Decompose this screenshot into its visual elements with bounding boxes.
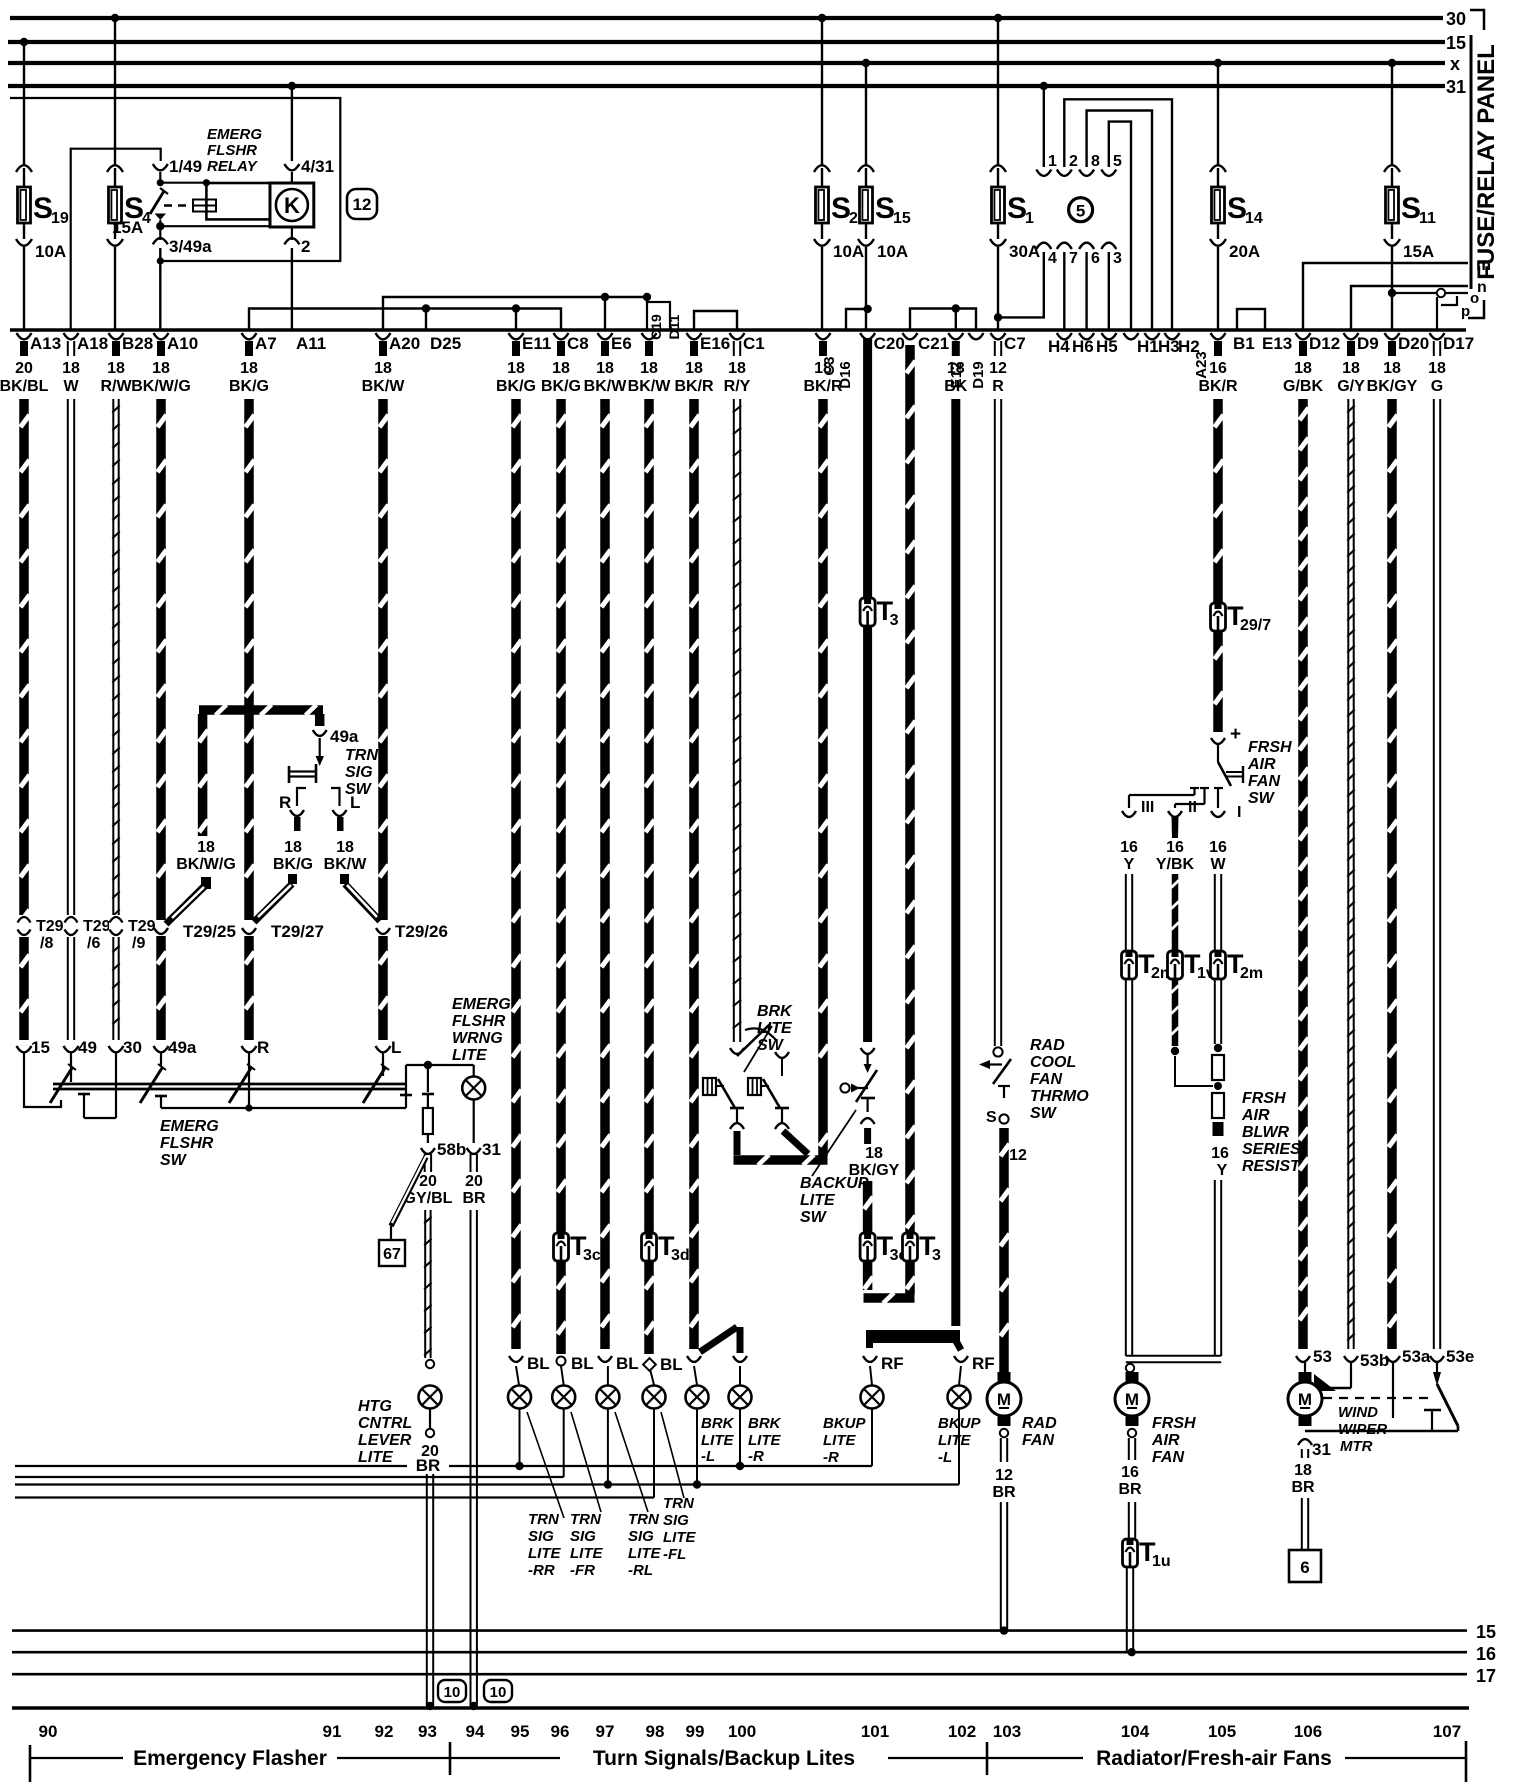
wire III 16 Y — [1126, 874, 1132, 951]
svg-text:3d: 3d — [671, 1247, 690, 1264]
svg-text:/9: /9 — [132, 935, 145, 952]
svg-text:94: 94 — [466, 1722, 485, 1741]
lamp trn sig lite -RR — [508, 1386, 531, 1409]
svg-text:49a: 49a — [330, 727, 359, 746]
callout 12 — [347, 189, 377, 219]
connector B28 at rail — [100, 333, 153, 395]
turn sig sw arrow — [316, 738, 325, 766]
svg-text:18: 18 — [1428, 360, 1446, 377]
annotation trn rr — [527, 1412, 564, 1518]
svg-text:E11: E11 — [522, 334, 551, 353]
relay5 terminal 2 — [1057, 99, 1172, 330]
label A23 vertical — [1193, 351, 1210, 379]
svg-text:BR: BR — [1118, 1481, 1142, 1498]
connector box C19 — [647, 302, 670, 340]
wire 12 to rad fan — [999, 1128, 1009, 1380]
svg-text:31: 31 — [1312, 1440, 1331, 1459]
label trn sig lite -FL — [663, 1495, 696, 1563]
svg-text:16: 16 — [1211, 1145, 1229, 1162]
svg-text:18: 18 — [507, 360, 525, 377]
svg-text:BK/W: BK/W — [362, 378, 406, 395]
bridge box B1-E13 — [1237, 309, 1265, 330]
label 16 W — [1209, 839, 1227, 873]
rad cool fan thrmo sw — [979, 1059, 1011, 1126]
svg-text:EMERG: EMERG — [160, 1118, 219, 1135]
label BRK LITE SW — [757, 1003, 793, 1054]
fuse S19 10A — [16, 165, 69, 330]
svg-text:T29/26: T29/26 — [395, 922, 448, 941]
wire E6 18 BK/W — [598, 399, 639, 1373]
section bar radiator fans — [987, 1741, 1466, 1782]
svg-text:BLWR: BLWR — [1242, 1124, 1290, 1141]
svg-text:10A: 10A — [833, 242, 864, 261]
svg-text:H1: H1 — [1137, 337, 1159, 356]
connector D9 at rail — [1337, 333, 1379, 395]
label rad fan — [1022, 1415, 1057, 1449]
svg-text:M: M — [997, 1390, 1011, 1409]
connector D17 at rail — [1428, 333, 1474, 395]
fuse/relay panel bracket — [1468, 10, 1500, 318]
connector 1218 at rail — [1198, 333, 1238, 395]
svg-text:T29/25: T29/25 — [183, 922, 236, 941]
svg-text:RELAY: RELAY — [207, 158, 259, 175]
wire frsh air fan feed — [1126, 1356, 1221, 1378]
labels B1 E13 — [1233, 334, 1292, 353]
annotation trn rl — [615, 1412, 648, 1512]
svg-text:RESIST: RESIST — [1242, 1158, 1301, 1175]
svg-text:67: 67 — [383, 1246, 401, 1263]
wire bus C — [15, 1483, 959, 1485]
svg-text:15A: 15A — [112, 218, 143, 237]
svg-text:96: 96 — [551, 1722, 570, 1741]
svg-text:31: 31 — [1446, 77, 1466, 97]
svg-text:3: 3 — [1113, 250, 1122, 267]
svg-text:BR: BR — [1291, 1479, 1315, 1496]
svg-text:BKUP: BKUP — [823, 1415, 866, 1432]
connector C1 at rail — [724, 333, 765, 395]
wire bus BR — [15, 1465, 872, 1467]
lamp bkup lite -R — [861, 1386, 884, 1409]
svg-text:BK/R: BK/R — [674, 378, 714, 395]
svg-text:49: 49 — [78, 1038, 97, 1057]
svg-text:BR: BR — [462, 1190, 486, 1207]
fuse S15 10A — [858, 165, 911, 330]
svg-text:1: 1 — [1025, 210, 1034, 227]
wire C8 lower — [556, 1261, 593, 1385]
svg-text:30A: 30A — [1009, 242, 1040, 261]
svg-text:D19: D19 — [970, 361, 987, 389]
brk sw T contact right — [775, 1108, 789, 1129]
callout 10 right — [484, 1680, 512, 1702]
relay5 terminal 3 — [1101, 243, 1122, 330]
junction S2-bus30 — [818, 14, 826, 165]
label D11 — [666, 314, 682, 339]
terminal III — [1122, 799, 1154, 817]
connector C8 at rail — [541, 333, 589, 395]
svg-text:BL: BL — [660, 1355, 683, 1374]
svg-text:LITE: LITE — [358, 1449, 394, 1466]
wire E16 18 BK/R — [687, 399, 701, 1362]
svg-text:TRN: TRN — [528, 1511, 560, 1528]
callout 10 left — [438, 1680, 466, 1702]
svg-text:30: 30 — [123, 1038, 142, 1057]
label C3 D16 vertical — [821, 356, 854, 388]
svg-text:18: 18 — [728, 360, 746, 377]
svg-text:15: 15 — [893, 210, 911, 227]
svg-text:18: 18 — [374, 360, 392, 377]
emerg sw pole L — [382, 1052, 384, 1076]
relay5 terminal 6 — [1079, 243, 1100, 330]
lamp trn sig lite -RL — [596, 1386, 619, 1409]
svg-text:C3: C3 — [821, 356, 838, 375]
svg-text:SIG: SIG — [528, 1528, 554, 1545]
lamp bkup lite -L — [948, 1386, 971, 1409]
relay5 terminal 7 — [1057, 243, 1078, 330]
svg-text:o: o — [1470, 290, 1479, 307]
svg-text:MTR: MTR — [1340, 1438, 1373, 1455]
brk sw T contact left — [730, 1108, 744, 1129]
wire 3/49a to rail A10 — [157, 248, 164, 330]
svg-text:102: 102 — [948, 1722, 976, 1741]
svg-text:18: 18 — [685, 360, 703, 377]
wire lamp FR down — [563, 1409, 565, 1477]
svg-text:TRN: TRN — [345, 747, 378, 764]
svg-text:WRNG: WRNG — [452, 1030, 503, 1047]
wire 31 br — [470, 1154, 478, 1710]
label 18 BK/W/G stub — [176, 839, 236, 873]
svg-text:92: 92 — [375, 1722, 394, 1741]
svg-text:S: S — [875, 192, 895, 225]
svg-text:18: 18 — [865, 1145, 883, 1162]
svg-text:BK/G: BK/G — [496, 378, 536, 395]
label frsh air fan sw — [1247, 739, 1292, 807]
label wind wiper mtr — [1338, 1404, 1387, 1455]
svg-text:15A: 15A — [1403, 242, 1434, 261]
svg-text:-FL: -FL — [663, 1546, 686, 1563]
relay terminal 3/49a — [153, 220, 212, 256]
emerg sw output line — [161, 1104, 406, 1111]
motor frsh air fan — [1115, 1372, 1149, 1426]
connector A18 at rail — [62, 333, 108, 395]
wire III lower — [1126, 979, 1132, 1356]
wire D9 18 G/Y — [1344, 399, 1389, 1370]
svg-text:A11: A11 — [296, 334, 326, 353]
connector A20 at rail — [362, 333, 421, 395]
svg-text:-RL: -RL — [628, 1562, 653, 1579]
svg-text:p: p — [1461, 303, 1470, 320]
svg-text:I: I — [1237, 804, 1241, 821]
svg-text:103: 103 — [993, 1722, 1021, 1741]
terminal II — [1168, 799, 1197, 817]
svg-text:BRK: BRK — [701, 1415, 735, 1432]
svg-text:FRSH: FRSH — [1248, 739, 1292, 756]
svg-text:TRN: TRN — [570, 1511, 602, 1528]
svg-text:T29/27: T29/27 — [271, 922, 324, 941]
wire rad fan ground — [992, 1429, 1016, 1635]
svg-text:-R: -R — [748, 1448, 764, 1465]
svg-text:C8: C8 — [567, 334, 589, 353]
svg-text:BL: BL — [571, 1354, 594, 1373]
relay armature S4a — [150, 188, 168, 214]
wire 53 to motor — [1304, 1362, 1306, 1377]
emerg sw pole 49a — [155, 1052, 167, 1108]
svg-text:93: 93 — [418, 1722, 437, 1741]
svg-text:BK/GY: BK/GY — [849, 1162, 900, 1179]
svg-text:97: 97 — [596, 1722, 615, 1741]
svg-text:A10: A10 — [167, 334, 198, 353]
wire A20 18 BK/W — [376, 399, 402, 1057]
label 18 BK/GY — [849, 1145, 900, 1179]
relay contact arrow — [155, 214, 167, 221]
svg-text:6: 6 — [1300, 1558, 1309, 1577]
emerg flshr sw blade 240 — [229, 1064, 255, 1103]
emerg sw 58b branch — [421, 1065, 466, 1159]
wire diag to T29/26 — [340, 874, 380, 921]
svg-text:18: 18 — [197, 839, 215, 856]
svg-text:1u: 1u — [1152, 1553, 1171, 1570]
connector T3 upper — [860, 596, 899, 629]
svg-text:E16: E16 — [700, 334, 730, 353]
svg-text:SW: SW — [160, 1152, 188, 1169]
svg-text:LEVER: LEVER — [358, 1432, 412, 1449]
label T29/27 — [271, 922, 324, 941]
svg-text:16: 16 — [1166, 839, 1184, 856]
svg-text:E12: E12 — [948, 362, 965, 389]
svg-text:LITE: LITE — [800, 1192, 836, 1209]
svg-text:LITE: LITE — [452, 1047, 488, 1064]
svg-text:AIR: AIR — [1247, 756, 1276, 773]
svg-text:SW: SW — [800, 1209, 828, 1226]
svg-text:FRSH: FRSH — [1242, 1090, 1286, 1107]
svg-text:+: + — [1230, 724, 1241, 745]
svg-text:1: 1 — [1048, 153, 1057, 170]
svg-text:12: 12 — [989, 360, 1007, 377]
terminal I — [1211, 804, 1241, 821]
terminal box 6 — [1289, 1550, 1321, 1582]
svg-text:5: 5 — [1076, 202, 1085, 221]
backup sw T contact — [861, 1098, 875, 1144]
connector C20 at rail — [860, 333, 905, 353]
svg-text:18: 18 — [552, 360, 570, 377]
wire bus D — [15, 1496, 654, 1498]
connector 823 at rail — [803, 333, 843, 395]
wire II lower — [1171, 979, 1213, 1086]
svg-text:T29: T29 — [83, 918, 111, 935]
svg-text:BK/R: BK/R — [1198, 378, 1238, 395]
relay5 terminal 1 — [1036, 82, 1057, 176]
svg-text:LITE: LITE — [701, 1432, 734, 1449]
emerg flshr sw bar — [53, 1084, 406, 1089]
svg-text:H3: H3 — [1158, 337, 1180, 356]
wire p — [1441, 296, 1470, 320]
label 16 Y — [1120, 839, 1138, 873]
svg-text:5: 5 — [1113, 153, 1122, 170]
connector E11 at rail — [496, 333, 551, 395]
wire to wrng lite — [406, 1061, 474, 1069]
svg-text:90: 90 — [39, 1722, 58, 1741]
svg-text:A13: A13 — [30, 334, 61, 353]
connector C7 at rail — [989, 333, 1026, 395]
wire bus B — [15, 1476, 564, 1478]
svg-text:B1: B1 — [1233, 334, 1255, 353]
label T29/9 — [128, 918, 156, 952]
wire bus 30 — [10, 9, 1466, 29]
svg-text:4/31: 4/31 — [301, 157, 334, 176]
label brk lite -R — [748, 1415, 782, 1465]
svg-text:C20: C20 — [874, 334, 905, 353]
wire relay2 to rail A11 — [291, 248, 293, 330]
turn sig contact L — [331, 788, 360, 831]
relay coil plug — [193, 200, 216, 212]
svg-text:20: 20 — [465, 1173, 483, 1190]
svg-text:COOL: COOL — [1030, 1054, 1076, 1071]
label frsh air fan — [1151, 1415, 1196, 1466]
wire bus 31 — [8, 77, 1466, 97]
frsh air sw contacts — [1129, 788, 1223, 808]
svg-text:BR: BR — [992, 1484, 1016, 1501]
wire A23 16 BK/R — [1213, 399, 1223, 603]
svg-text:-L: -L — [701, 1448, 715, 1465]
svg-text:7: 7 — [1069, 250, 1078, 267]
svg-text:16: 16 — [1121, 1464, 1139, 1481]
svg-text:III: III — [1141, 799, 1154, 816]
emerg flshr sw blade 374 — [363, 1064, 389, 1103]
svg-text:-R: -R — [823, 1449, 839, 1466]
svg-text:10: 10 — [490, 1684, 507, 1701]
svg-text:Turn Signals/Backup Lites: Turn Signals/Backup Lites — [593, 1747, 855, 1770]
connector T3d — [642, 1231, 690, 1264]
svg-text:106: 106 — [1294, 1722, 1322, 1741]
connector T3e — [860, 1231, 907, 1264]
svg-text:TRN: TRN — [628, 1511, 660, 1528]
svg-text:S: S — [831, 192, 851, 225]
connector T2m left — [1122, 949, 1175, 982]
svg-text:x: x — [1450, 54, 1460, 74]
connector C21 at rail — [903, 333, 950, 353]
svg-text:12: 12 — [1009, 1147, 1027, 1164]
wire m to D12 — [1303, 255, 1491, 330]
relay 5 circle — [1069, 198, 1093, 222]
wire E12 18 BK — [951, 399, 960, 1326]
svg-text:FAN: FAN — [1248, 773, 1280, 790]
svg-text:HTG: HTG — [358, 1398, 392, 1415]
emerg sw pole 15 — [24, 1052, 61, 1107]
relay box outline (emerg flshr relay) — [10, 98, 340, 261]
label T29/26 — [395, 922, 448, 941]
label frsh air blwr series resist — [1241, 1090, 1301, 1175]
svg-text:91: 91 — [323, 1722, 342, 1741]
junction S14-busx — [1214, 59, 1222, 165]
svg-text:A20: A20 — [389, 334, 420, 353]
wire A18 18 W — [64, 399, 97, 1057]
svg-text:II: II — [1188, 799, 1197, 816]
connector T29/9 — [109, 915, 123, 937]
svg-text:98: 98 — [646, 1722, 665, 1741]
svg-text:L: L — [391, 1038, 401, 1057]
svg-text:G/BK: G/BK — [1283, 378, 1323, 395]
svg-text:18: 18 — [1294, 1462, 1312, 1479]
backup lite sw — [840, 1054, 877, 1102]
svg-text:18: 18 — [62, 360, 80, 377]
relay terminal 4/31 — [284, 82, 334, 183]
connector A7 at rail — [229, 333, 277, 395]
svg-text:D25: D25 — [430, 334, 461, 353]
svg-text:2: 2 — [849, 210, 858, 227]
terminal box 67 — [379, 1240, 405, 1266]
svg-text:D9: D9 — [1357, 334, 1379, 353]
svg-text:3: 3 — [932, 1247, 941, 1264]
label 16 Y/BK — [1156, 839, 1195, 873]
svg-text:FLSHR: FLSHR — [207, 142, 257, 159]
svg-text:K: K — [284, 193, 300, 218]
svg-text:18: 18 — [152, 360, 170, 377]
labels H4 H6 H5 H1 H3 H2 — [1048, 333, 1200, 356]
resistor frsh air blwr — [1212, 1055, 1224, 1136]
wire A18 to relay 1/49 — [71, 149, 161, 330]
svg-text:16: 16 — [1120, 839, 1138, 856]
wire bkup u-turn — [863, 1261, 915, 1303]
svg-text:Y: Y — [1217, 1162, 1228, 1179]
label D25 — [430, 334, 461, 353]
svg-text:SIG: SIG — [663, 1512, 689, 1529]
svg-text:L: L — [350, 793, 360, 812]
svg-text:A23: A23 — [1193, 351, 1210, 379]
relay terminal 2 — [284, 227, 310, 256]
svg-text:BK/W/G: BK/W/G — [176, 856, 236, 873]
wire C8 18 BK/G — [556, 399, 566, 1233]
svg-text:107: 107 — [1433, 1722, 1461, 1741]
svg-text:LITE: LITE — [748, 1432, 781, 1449]
svg-text:G/Y: G/Y — [1337, 378, 1365, 395]
svg-text:THRMO: THRMO — [1030, 1088, 1089, 1105]
label brk lite -L — [701, 1415, 735, 1465]
label bkup lite -L — [938, 1415, 981, 1466]
svg-text:105: 105 — [1208, 1722, 1236, 1741]
svg-text:S: S — [986, 1109, 997, 1126]
jumper D16-C20 — [846, 305, 872, 330]
svg-text:C7: C7 — [1004, 334, 1026, 353]
lamp trn sig lite -FL — [643, 1386, 666, 1409]
svg-text:C21: C21 — [918, 334, 949, 353]
svg-text:RAD: RAD — [1022, 1415, 1057, 1432]
emerg flshr sw blade 61 — [50, 1064, 76, 1103]
junction S15-busx — [862, 59, 870, 165]
svg-text:G: G — [1431, 378, 1443, 395]
connector T2m right — [1211, 949, 1264, 982]
svg-text:3/49a: 3/49a — [169, 237, 212, 256]
cup D19 — [969, 333, 984, 339]
relay contact box K — [270, 183, 314, 227]
svg-text:BK/G: BK/G — [229, 378, 269, 395]
wire D20 18 BK/GY — [1386, 399, 1431, 1366]
label trn sig lite -RL — [628, 1511, 661, 1579]
svg-text:LITE: LITE — [570, 1545, 603, 1562]
emerg sw pole 30 — [115, 1052, 117, 1118]
svg-text:18: 18 — [640, 360, 658, 377]
svg-text:10A: 10A — [35, 242, 66, 261]
jumper A7-C8 — [249, 304, 561, 330]
svg-text:S: S — [1401, 192, 1421, 225]
connector T1v — [1168, 949, 1215, 982]
svg-text:R: R — [992, 378, 1004, 395]
connector T29/8 — [17, 915, 31, 937]
svg-text:M: M — [1125, 1390, 1139, 1409]
svg-text:49a: 49a — [168, 1038, 197, 1057]
svg-text:E6: E6 — [611, 334, 632, 353]
lamp brk lite -R — [729, 1386, 752, 1409]
label BR inline — [416, 1456, 441, 1475]
svg-text:TRN: TRN — [663, 1495, 695, 1512]
